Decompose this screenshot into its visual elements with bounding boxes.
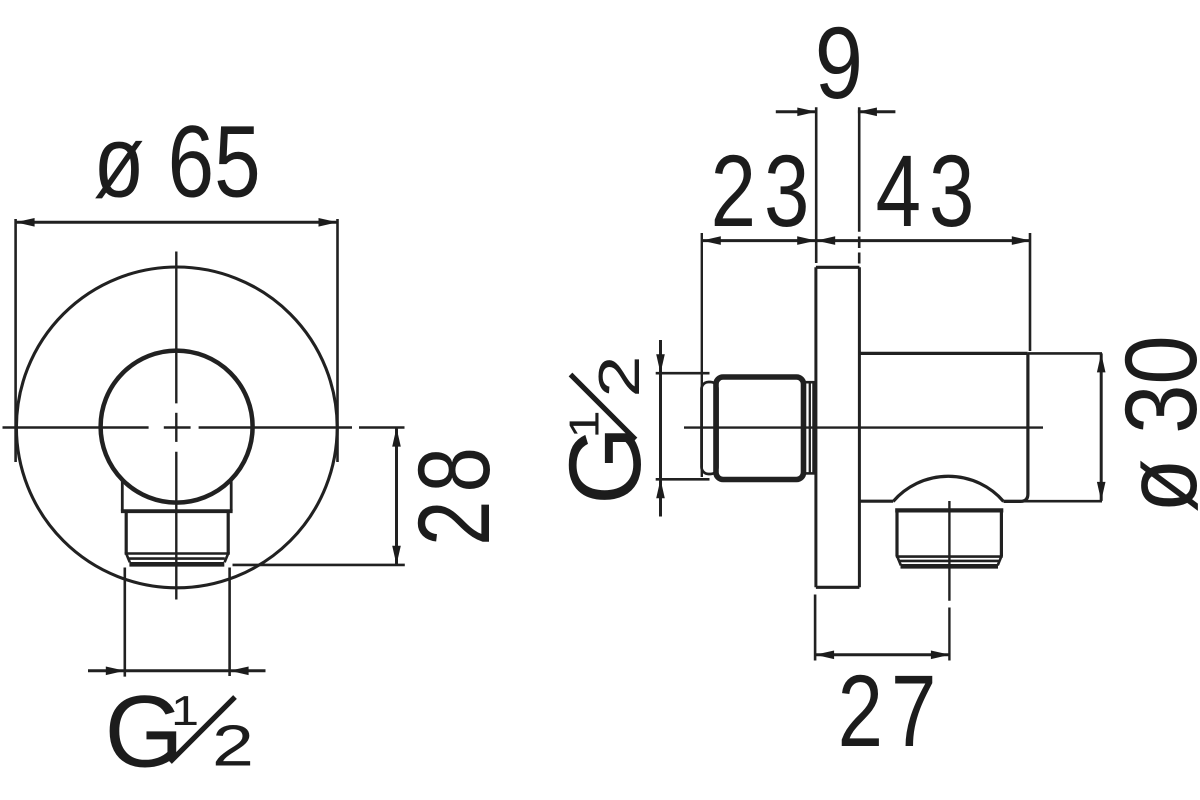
svg-text:2: 2 <box>587 356 652 398</box>
svg-text:1: 1 <box>171 687 199 734</box>
svg-text:43: 43 <box>876 134 983 248</box>
svg-text:28: 28 <box>397 439 511 546</box>
svg-text:2: 2 <box>212 714 254 779</box>
svg-text:ø 65: ø 65 <box>93 105 260 219</box>
svg-text:9: 9 <box>815 6 863 120</box>
svg-text:ø 30: ø 30 <box>1104 335 1200 513</box>
svg-text:27: 27 <box>838 654 945 768</box>
svg-text:23: 23 <box>711 134 818 248</box>
svg-text:1: 1 <box>561 410 608 438</box>
